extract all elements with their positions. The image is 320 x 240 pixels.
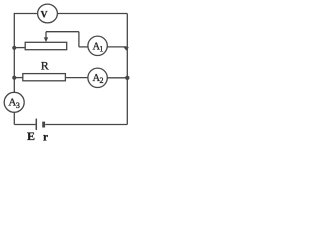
svg-text:3: 3 bbox=[16, 101, 20, 110]
svg-text:E: E bbox=[27, 129, 35, 143]
svg-text:r: r bbox=[43, 131, 48, 143]
svg-text:R: R bbox=[41, 59, 49, 73]
svg-text:1: 1 bbox=[99, 45, 103, 54]
svg-text:V: V bbox=[41, 11, 48, 21]
svg-text:2: 2 bbox=[100, 76, 104, 85]
